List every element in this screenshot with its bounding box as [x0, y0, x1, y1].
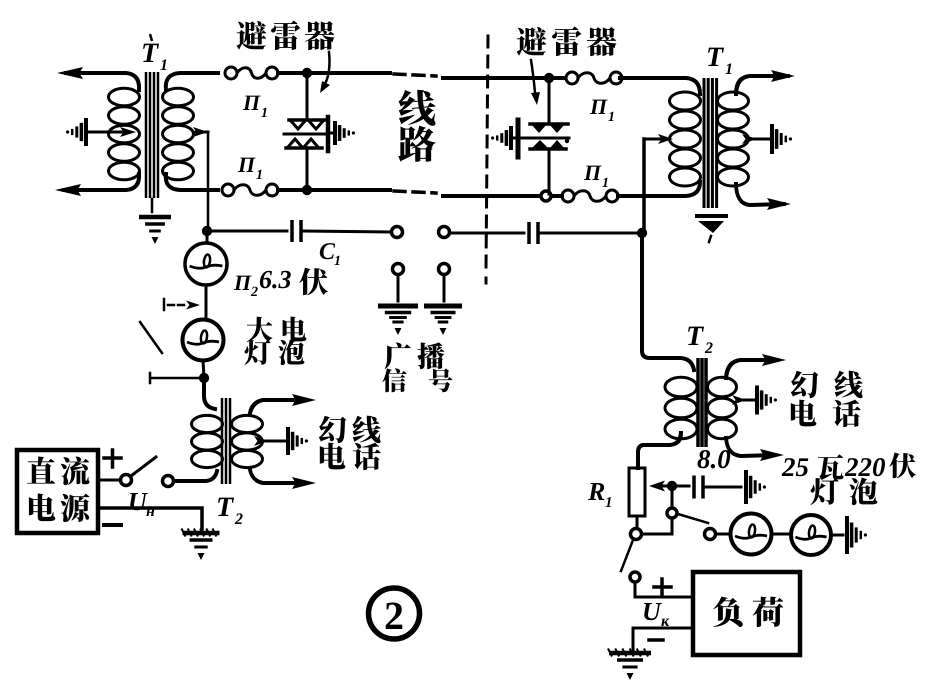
figure number 2 badge	[369, 588, 420, 639]
wire T1 right primary center tap	[645, 138, 660, 141]
transformer T2 (right) secondary bottom lead with arrow	[726, 438, 774, 456]
ink dot near right fuse	[565, 139, 569, 143]
label T2 (left)	[218, 498, 234, 516]
wire terminal to T2 left primary	[174, 471, 217, 481]
transformer T1 (left) secondary bottom lead	[166, 174, 218, 190]
open terminal right of gap	[439, 227, 450, 238]
lightning arrester (left) middle plate	[284, 133, 327, 136]
label arrester (left)	[236, 21, 266, 50]
junction dot at arrester (top-right)	[544, 73, 554, 83]
minus sign at source	[104, 523, 121, 527]
ground right of capacitor (sideways)	[744, 470, 748, 504]
wire fuse to arrester node (top-left line)	[278, 71, 390, 75]
plus sign at Uk	[654, 579, 671, 595]
transformer T2 (right) core	[696, 358, 700, 447]
label P1 top-left	[243, 96, 261, 110]
switch blade to lamps	[678, 514, 708, 523]
wire below big lamp	[203, 360, 204, 378]
label P1 bottom-left	[238, 158, 256, 172]
label phantom telephone (right)	[791, 371, 819, 398]
ground broadcast 1	[378, 304, 418, 309]
R1 wiper arrow	[662, 485, 673, 488]
fuse P1 top-left	[225, 67, 237, 79]
bypass contact bracket	[163, 299, 166, 310]
wire T2 right secondary center tap	[744, 399, 754, 402]
lightning arrester (right) bottom electrode	[530, 147, 566, 151]
R1 bottom terminal	[631, 529, 642, 540]
ground below T1 left core	[151, 199, 154, 212]
lightning arrester (left) right bar	[326, 117, 331, 151]
label P1 bottom-right	[584, 166, 602, 180]
capacitor (right of boundary)	[527, 222, 531, 244]
transformer T1 (left) secondary winding	[163, 88, 194, 106]
transformer T1 (right) core	[703, 78, 706, 208]
wire capacitor to ground	[706, 486, 741, 489]
boundary dashed line	[486, 36, 488, 283]
wire wiper junction down to switch	[671, 490, 674, 508]
wire source to switch	[98, 479, 120, 482]
wire node to lamp P2	[206, 232, 209, 243]
plus sign at source	[104, 450, 121, 467]
switch terminal to lamps	[667, 508, 677, 518]
label load	[713, 597, 743, 627]
wire R1 bottom	[636, 516, 639, 528]
indicator lamp 2	[791, 515, 831, 555]
transformer T1 (left) secondary top lead	[166, 73, 218, 90]
transformer T2 (left) secondary bottom lead with arrow	[250, 470, 306, 483]
wire junction down to T2 right	[642, 233, 694, 370]
transformer T1 (right) label	[708, 48, 724, 66]
transformer T2 (left) secondary top lead with arrow	[250, 400, 306, 413]
ground at left arrester (sideways right)	[328, 132, 333, 135]
label Uн	[130, 493, 148, 510]
wire top line to arrester	[306, 75, 309, 119]
wire wiper junction to capacitor	[676, 485, 689, 488]
transformer T1 (left) primary bottom lead with arrow	[64, 174, 139, 190]
fuse P1 top-right	[566, 72, 578, 84]
label big lamp	[247, 317, 273, 343]
indicator lamp 1	[731, 514, 772, 555]
wire top-right line	[443, 76, 564, 80]
transformer T1 (right) secondary bottom lead with arrow	[736, 184, 784, 205]
minus sign at Uk	[649, 638, 663, 642]
wire top line to right arrester	[548, 80, 551, 123]
transformer T1 (left) primary winding	[109, 88, 140, 106]
wire T1 left secondary center tap	[196, 131, 208, 134]
ground below source	[182, 529, 186, 537]
open terminal at T2 left primary bottom	[163, 476, 174, 487]
label phantom telephone (left)	[319, 416, 347, 443]
wire capacitor to junction	[540, 232, 640, 235]
transformer T1 (right) primary top lead	[620, 78, 700, 94]
wire T2 right primary bottom to R1	[638, 433, 681, 468]
lamp chain terminal	[705, 529, 716, 540]
fuse P1 bottom-left	[222, 184, 234, 196]
ground at T2 left center tap (sideways)	[286, 427, 290, 455]
lightning arrester (right) top electrode	[530, 122, 568, 126]
line-break dashes bottom wire	[394, 191, 436, 193]
transformer T1 (right) primary winding	[670, 92, 701, 110]
wire arrester to bottom line	[306, 149, 309, 189]
ground at T1 right center tap (sideways)	[770, 124, 774, 154]
ground right of lamp chain (sideways)	[845, 516, 849, 554]
label Uk	[644, 603, 662, 620]
wire right arrester to bottom line	[548, 150, 551, 194]
wire terminal to lamp 1	[716, 533, 731, 536]
label arrester (right)	[516, 27, 546, 56]
capacitor 8.0	[692, 476, 696, 499]
wire bottom-right line	[443, 194, 562, 198]
wire source bottom to ground	[98, 508, 202, 529]
signal lamp P2	[185, 243, 227, 285]
transformer T1 (left) core	[145, 72, 148, 198]
wire T1 right secondary center tap to ground	[754, 138, 769, 141]
wire center tap down to node	[642, 139, 646, 232]
label 8.0	[697, 450, 710, 468]
transformer T1 (right) secondary winding	[718, 92, 749, 110]
arrow from label to arrester (left)	[325, 52, 330, 84]
wire terminal to capacitor (right)	[450, 232, 524, 235]
label C1	[320, 243, 335, 259]
lightning arrester (left) top electrode	[289, 118, 326, 122]
switch terminal to Uk	[630, 572, 640, 582]
wire lamp P2 to junction	[205, 285, 208, 318]
junction dot top-left line	[302, 68, 312, 78]
transformer T2 (left) primary winding	[192, 415, 223, 432]
label line (xian lu)	[399, 90, 436, 126]
wire terminal to load box (+)	[635, 582, 692, 597]
capacitor C1	[290, 220, 294, 242]
open terminal left of gap	[392, 227, 403, 238]
label DC source	[27, 456, 55, 483]
transformer T1 (right) secondary top lead with arrow	[736, 76, 788, 94]
lightning arrester (right) middle plate	[521, 137, 569, 140]
label broadcast signal	[385, 343, 411, 370]
label 25W 220V lamp	[782, 458, 795, 476]
switch blade Uн	[131, 457, 156, 476]
line-break dashes top wire	[394, 74, 436, 76]
lightning arrester (left) bottom electrode	[286, 146, 322, 150]
wire T2 left secondary center tap	[266, 440, 285, 443]
wire fuse to node (bottom-left line)	[278, 188, 390, 192]
broadcast terminal 2	[439, 264, 450, 275]
transformer T2 (left) core	[221, 398, 224, 484]
DC source box	[17, 450, 98, 533]
label T2 (right)	[688, 327, 704, 345]
fuse P1 bottom-right	[562, 190, 574, 202]
ground below T1 right core	[697, 214, 726, 218]
ground at right arrester (sideways left)	[513, 137, 518, 140]
wire center tap left to ground	[89, 131, 122, 134]
ground below Uk	[608, 649, 612, 657]
switch bottom contact	[150, 373, 200, 383]
junction dot at wiper	[667, 481, 677, 491]
label P2 6.3V	[234, 276, 252, 290]
big lamp (da diandengpao)	[183, 320, 224, 361]
broadcast terminal 1	[393, 264, 404, 275]
label T1 (left)	[143, 44, 159, 62]
wire R1 bottom terminal to wiper branch	[642, 518, 672, 534]
transformer T2 (right) primary winding	[665, 377, 697, 397]
open terminal at arrester (bottom-right)	[541, 191, 551, 201]
junction dot right	[637, 228, 647, 238]
transformer T2 (right) secondary winding	[708, 377, 737, 397]
transformer T2 (right) secondary top lead with arrow	[726, 360, 776, 378]
wire lamp 2 to ground	[831, 534, 843, 537]
transformer T1 (left) primary top lead with arrow	[66, 73, 139, 90]
lightning arrester (right) left bar	[516, 120, 521, 157]
label P1 top-right	[590, 100, 608, 114]
switch terminal 1 (Uн)	[121, 475, 132, 486]
wire node to C1	[211, 230, 287, 233]
wire lamp junction to T2 left	[204, 378, 215, 409]
switch blade across big lamp	[140, 322, 162, 353]
wire lamp 1 to lamp 2	[771, 533, 791, 536]
node dot at C1 row left	[202, 226, 212, 236]
junction dot bottom-left line	[302, 185, 312, 195]
junction dot below big lamp	[199, 373, 209, 383]
transformer T2 (left) secondary winding	[232, 415, 263, 432]
load box	[693, 572, 800, 655]
ground broadcast 2	[424, 304, 462, 309]
switch blade to Uk	[621, 540, 633, 571]
arrow from label to arrester (right)	[531, 60, 535, 93]
wire C1 to terminal	[303, 231, 391, 232]
wire load box bottom to ground	[633, 628, 692, 650]
ground at T1 left center tap (sideways)	[84, 118, 88, 146]
ground at T2 right center tap (sideways)	[755, 386, 759, 415]
resistor R1	[629, 468, 645, 516]
label R1	[588, 483, 604, 500]
transformer T1 (right) primary bottom lead	[618, 182, 700, 196]
wire from T1 center tap down to C1 node	[207, 132, 210, 231]
